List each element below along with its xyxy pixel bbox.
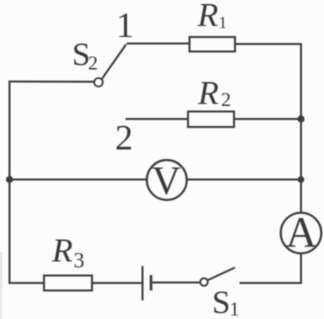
switch S1 pivot circle bbox=[200, 278, 208, 286]
wire left vertical bbox=[9, 82, 11, 284]
wire voltmeter right bbox=[187, 179, 301, 181]
svg-text:1: 1 bbox=[230, 299, 240, 319]
svg-text:2: 2 bbox=[88, 53, 98, 75]
wire R3 to battery bbox=[92, 282, 142, 284]
resistor R1 bbox=[190, 37, 236, 52]
wire voltmeter left bbox=[9, 179, 148, 181]
node junction left voltmeter bbox=[6, 176, 13, 183]
resistor R3 bbox=[44, 276, 92, 291]
wire top-left horizontal to S2 pivot bbox=[9, 81, 95, 83]
battery long plate bbox=[142, 266, 144, 301]
svg-text:2: 2 bbox=[115, 118, 133, 158]
scan edge shadow bbox=[0, 252, 2, 319]
node 2 contact wire bbox=[126, 118, 189, 120]
svg-text:1: 1 bbox=[116, 5, 134, 45]
voltmeter V bbox=[147, 160, 187, 200]
node 1 contact wire bbox=[127, 43, 191, 45]
svg-text:1: 1 bbox=[219, 13, 228, 32]
ammeter A bbox=[281, 213, 322, 254]
switch S2 pivot circle bbox=[94, 78, 103, 87]
wire bottom-left corner to R3 bbox=[9, 282, 45, 284]
switch S1 blade bbox=[207, 268, 235, 281]
wire ammeter to bottom-right corner bbox=[240, 253, 302, 283]
svg-text:R: R bbox=[197, 0, 219, 34]
svg-text:V: V bbox=[152, 158, 181, 203]
svg-text:S: S bbox=[212, 285, 230, 319]
wire right bus junction to voltmeter node bbox=[300, 119, 302, 180]
node junction right voltmeter bbox=[298, 176, 305, 183]
wire battery to S1 bbox=[152, 282, 201, 284]
svg-text:A: A bbox=[286, 210, 317, 257]
svg-text:R: R bbox=[51, 233, 73, 270]
svg-text:R: R bbox=[197, 75, 219, 112]
wire R1 to top-right corner and down bbox=[235, 44, 301, 120]
svg-text:3: 3 bbox=[74, 248, 85, 273]
resistor R2 bbox=[188, 112, 234, 128]
node junction right R2 bbox=[297, 115, 304, 122]
battery short plate bbox=[150, 275, 153, 291]
switch S2 blade bbox=[102, 45, 126, 80]
svg-text:2: 2 bbox=[221, 89, 231, 111]
wire R2 to right bus bbox=[234, 118, 301, 120]
wire right bus to ammeter bbox=[300, 180, 302, 214]
